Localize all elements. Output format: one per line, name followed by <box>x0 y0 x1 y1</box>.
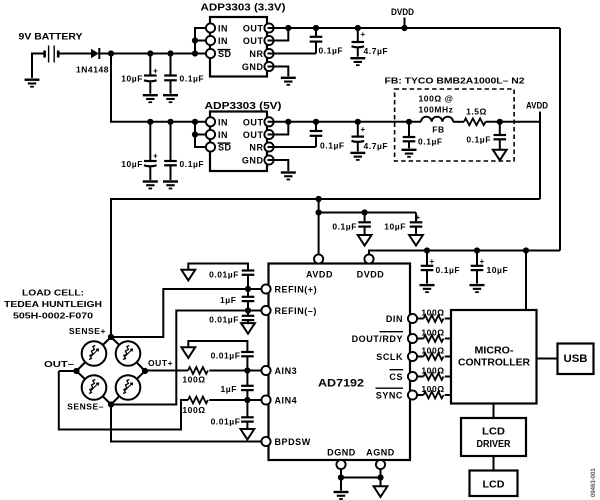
ground C17 AGND triangle <box>241 323 255 334</box>
svg-text:LOAD CELL:: LOAD CELL: <box>22 288 84 298</box>
capacitor C17 0.01uF REFIN- <box>209 311 254 325</box>
node filter output cap <box>497 119 503 125</box>
wire OUT- stub <box>59 370 77 372</box>
node filter input cap <box>406 119 412 125</box>
pin DOUT/RDY U3 <box>352 332 418 344</box>
pin CS U3 <box>389 370 417 382</box>
svg-text:AVDD: AVDD <box>526 101 548 111</box>
node AIN3 cap tap <box>244 367 250 373</box>
node U2 OUT2 <box>285 119 291 125</box>
wire battery node down to 5V rail <box>111 54 207 122</box>
wire U1 GND <box>268 67 289 77</box>
capacitor C10 0.1uF filter out <box>466 122 506 150</box>
pin SYNC U3 <box>376 388 418 400</box>
svg-text:SCLK: SCLK <box>376 352 403 362</box>
wire AVDD pin riser <box>318 199 320 255</box>
capacitor C1 10uF <box>121 54 158 94</box>
svg-text:ADP3303 (3.3V): ADP3303 (3.3V) <box>201 3 286 14</box>
svg-text:9V BATTERY: 9V BATTERY <box>19 32 84 43</box>
node C2 tap <box>167 50 173 56</box>
resistor R4 100ohm DOUT <box>417 328 451 342</box>
net AVDD <box>526 101 548 200</box>
wire AVDD return rail <box>111 199 540 337</box>
svg-text:OUT: OUT <box>243 130 264 140</box>
wire U1 OUT rail 3.3V <box>268 27 561 29</box>
svg-text:SD: SD <box>218 143 232 153</box>
pin DGND U3 <box>327 448 356 470</box>
dashed filter box <box>395 89 514 161</box>
svg-text:REFIN(+): REFIN(+) <box>275 285 318 295</box>
ground C1 <box>143 94 158 103</box>
svg-text:OUT+: OUT+ <box>148 358 173 368</box>
capacitor C5 10uF <box>121 122 158 180</box>
wire LCD driver to LCD <box>493 456 495 471</box>
svg-text:0.1µF: 0.1µF <box>466 135 491 145</box>
wire REFIN- <box>111 311 261 405</box>
svg-text:100Ω: 100Ω <box>182 375 205 385</box>
resistor R1 100ohm AIN3 <box>182 367 208 384</box>
ground battery <box>25 79 40 88</box>
capacitor C2 0.1uF <box>164 54 204 94</box>
label load cell <box>4 288 102 321</box>
node OUT- <box>73 368 79 374</box>
wire battery to diode <box>58 53 91 55</box>
svg-text:0.1µF: 0.1µF <box>436 265 461 275</box>
regulator U2 ADP3303 5V <box>205 101 282 171</box>
svg-text:+: + <box>430 257 435 266</box>
node OUT2 <box>285 25 291 31</box>
wire riser U2 to IN2 <box>195 134 207 136</box>
ferrite bead FB1 100ohm 100MHz <box>419 94 454 135</box>
ground C15 AGND triangle <box>181 270 195 281</box>
svg-text:SD: SD <box>218 49 232 59</box>
svg-text:+: + <box>361 125 366 134</box>
ground C14 <box>470 284 485 293</box>
svg-text:100Ω: 100Ω <box>421 384 444 394</box>
capacitor C20 0.01uF AIN4 <box>211 400 254 429</box>
node AVDD decouple rail <box>316 209 322 215</box>
pin AIN4 U3 <box>261 395 297 405</box>
wire U1 OUT2 riser <box>268 28 289 41</box>
svg-text:100MHz: 100MHz <box>419 105 454 115</box>
svg-text:AIN3: AIN3 <box>275 366 298 376</box>
capacitor C9 0.1uF filter in <box>403 122 443 149</box>
microcontroller U4 <box>451 310 537 404</box>
battery BT1 <box>45 46 59 63</box>
svg-text:DGND: DGND <box>327 448 356 458</box>
svg-text:IN: IN <box>218 36 228 46</box>
svg-text:0.1µF: 0.1µF <box>180 74 205 84</box>
node REFIN+ cap tap <box>245 286 251 292</box>
svg-text:DVDD: DVDD <box>357 270 385 280</box>
resistor R7 100ohm CS <box>417 366 451 380</box>
wire diode to regulator input <box>99 53 206 55</box>
svg-text:FB: TYCO BMB2A1000L– N2: FB: TYCO BMB2A1000L– N2 <box>385 76 525 86</box>
svg-text:09463-001: 09463-001 <box>591 468 597 497</box>
svg-text:4.7µF: 4.7µF <box>364 141 389 151</box>
svg-text:AD7192: AD7192 <box>318 378 364 390</box>
svg-text:0.1µF: 0.1µF <box>418 137 443 147</box>
svg-text:+: + <box>361 30 366 39</box>
svg-text:USB: USB <box>564 353 588 365</box>
capacitor C4 4.7uF <box>352 25 389 57</box>
svg-text:100Ω: 100Ω <box>421 308 444 318</box>
svg-text:GND: GND <box>242 62 264 72</box>
wire battery to ground <box>32 54 45 79</box>
svg-text:0.01µF: 0.01µF <box>209 270 239 280</box>
resistor R5 100ohm SCLK <box>417 346 451 360</box>
LCD display <box>470 471 518 497</box>
svg-text:10µF: 10µF <box>121 74 143 84</box>
ground C9 <box>402 149 417 158</box>
wire riser to IN2 U1 <box>195 40 207 42</box>
pin REFIN- U3 <box>261 306 317 316</box>
wire R2 to AIN4 pin <box>209 399 261 401</box>
svg-text:AIN4: AIN4 <box>275 396 298 406</box>
svg-text:OUT: OUT <box>243 36 264 46</box>
svg-text:100Ω: 100Ω <box>421 366 444 376</box>
svg-text:LCD: LCD <box>483 480 505 491</box>
wire FB to R6 <box>453 121 464 123</box>
svg-text:505H-0002-F070: 505H-0002-F070 <box>13 311 93 321</box>
node C14 tap <box>474 247 480 253</box>
svg-text:OUT: OUT <box>243 117 264 127</box>
wire MCU to LCD driver <box>493 404 495 419</box>
ground C4 <box>350 57 365 66</box>
svg-text:DOUT/RDY: DOUT/RDY <box>352 334 403 344</box>
svg-text:+: + <box>153 152 158 161</box>
pin AGND U3 <box>366 448 395 470</box>
capacitor C16 1uF REFIN <box>220 289 254 311</box>
wire U2 GND <box>268 160 289 171</box>
svg-text:1N4148: 1N4148 <box>76 65 109 75</box>
wire REFIN+ <box>111 289 261 337</box>
ground C2 <box>163 94 178 103</box>
wire riser U2 to SD <box>195 122 207 147</box>
ground C12 AGND triangle <box>409 235 423 246</box>
wire DGND <box>340 469 342 491</box>
svg-text:0.01µF: 0.01µF <box>211 351 241 361</box>
svg-text:CONTROLLER: CONTROLLER <box>458 357 530 369</box>
svg-text:TEDEA HUNTLEIGH: TEDEA HUNTLEIGH <box>4 299 102 309</box>
svg-text:SENSE+: SENSE+ <box>69 326 106 336</box>
svg-text:MICRO-: MICRO- <box>475 345 515 357</box>
svg-text:1µF: 1µF <box>220 295 236 305</box>
node riser tap U2 <box>192 119 198 125</box>
svg-text:BPDSW: BPDSW <box>275 437 311 447</box>
ground U2 <box>281 171 296 180</box>
wire U2 OUT2 riser <box>268 122 289 135</box>
pin DVDD U3 <box>357 254 385 279</box>
op-amp U3 AD7192 box <box>269 264 411 461</box>
svg-text:FB: FB <box>432 125 444 135</box>
wire U1 NR <box>268 53 317 55</box>
node AIN4 cap tap <box>244 397 250 403</box>
node REFIN- cap tap <box>245 307 251 313</box>
pin DIN U3 <box>386 314 417 324</box>
ground C18 AGND triangle <box>181 347 195 358</box>
wire MCU supply <box>525 251 527 311</box>
svg-text:IN: IN <box>218 130 228 140</box>
ground C8 <box>350 152 365 161</box>
pin SCLK U3 <box>376 352 417 362</box>
wire riser to IN pins U1 <box>195 28 207 54</box>
capacitor C11 0.1uF AVDD <box>332 213 371 235</box>
ground C13 <box>420 284 435 293</box>
node battery rail <box>108 50 114 56</box>
wire DGND to AGND link <box>341 477 381 479</box>
svg-text:CS: CS <box>389 372 403 382</box>
pin REFIN+ U3 <box>261 284 317 294</box>
node SENSE- <box>108 401 114 407</box>
svg-text:SYNC: SYNC <box>376 391 403 401</box>
wire AGND <box>380 469 382 486</box>
wire R1 to AIN3 pin <box>209 370 261 372</box>
wire AVDD decouple rail <box>319 212 416 214</box>
node C6 tap <box>167 119 173 125</box>
wire U2 NR <box>268 146 317 148</box>
svg-text:0.01µF: 0.01µF <box>209 315 239 325</box>
wire DVDD decouple rail <box>369 251 560 256</box>
svg-text:100Ω @: 100Ω @ <box>419 94 454 104</box>
svg-text:0.1µF: 0.1µF <box>332 222 357 232</box>
ground C11 AGND triangle <box>358 235 372 246</box>
capacitor C19 1uF AIN <box>221 371 254 401</box>
node riser IN2 <box>192 37 198 43</box>
ground C6 <box>163 180 178 189</box>
resistor R6 1.5ohm <box>464 107 487 126</box>
node OUT+ <box>142 368 148 374</box>
capacitor C15 0.01uF REFIN+ <box>188 264 254 290</box>
regulator U1 ADP3303 3.3V <box>201 3 286 77</box>
svg-text:REFIN(–): REFIN(–) <box>275 306 317 316</box>
svg-text:1.5Ω: 1.5Ω <box>466 107 487 117</box>
resistor R2 100ohm AIN4 <box>182 397 208 415</box>
load cell bridge wires <box>76 337 145 405</box>
svg-text:10µF: 10µF <box>121 159 143 169</box>
svg-text:GND: GND <box>242 156 264 166</box>
node C11 tap <box>362 209 368 215</box>
svg-text:OUT–: OUT– <box>44 359 74 369</box>
wire SENSE- to BPDSW <box>111 405 261 442</box>
svg-text:+: + <box>153 67 158 76</box>
capacitor C13 0.1uF DVDD <box>421 251 460 284</box>
wire 3.3V rail right corner down <box>559 28 561 251</box>
svg-text:OUT: OUT <box>243 24 264 34</box>
pin AIN3 U3 <box>261 366 297 376</box>
svg-text:IN: IN <box>218 117 228 127</box>
svg-text:DVDD: DVDD <box>391 7 414 17</box>
strain gauge symbols <box>89 346 133 394</box>
svg-text:NR: NR <box>249 143 263 153</box>
svg-text:100Ω: 100Ω <box>421 346 444 356</box>
svg-text:ADP3303 (5V): ADP3303 (5V) <box>205 101 282 112</box>
capacitor C6 0.1uF <box>164 122 204 180</box>
pin AVDD U3 <box>306 254 333 279</box>
svg-text:AVDD: AVDD <box>306 270 333 280</box>
node DGND <box>338 474 344 480</box>
node AVDD decouple tap <box>316 196 322 202</box>
svg-text:SENSE–: SENSE– <box>67 402 104 412</box>
resistor R3 100ohm DIN <box>417 308 451 322</box>
ground C5 <box>143 180 158 189</box>
wire AIN3 from OUT+ <box>145 370 188 372</box>
node SENSE+ <box>108 334 114 340</box>
wire AIN4 left leg from OUT- <box>59 371 188 430</box>
ground DGND <box>334 491 349 500</box>
diode D1 1N4148 <box>76 48 109 75</box>
capacitor C8 4.7uF <box>352 119 389 152</box>
ground C10 AGND triangle <box>493 150 507 161</box>
svg-text:DIN: DIN <box>386 314 403 324</box>
capacitor C12 10uF AVDD <box>384 213 422 235</box>
pin BPDSW U3 <box>261 437 310 447</box>
wire MCU to USB <box>537 358 558 360</box>
svg-text:AGND: AGND <box>366 448 395 458</box>
node MCU supply tap <box>523 247 529 253</box>
svg-text:100Ω: 100Ω <box>421 328 444 338</box>
capacitor C3 0.1uF NR <box>310 25 343 56</box>
svg-text:NR: NR <box>249 49 263 59</box>
node C1 tap <box>147 50 153 56</box>
capacitor C14 10uF DVDD <box>471 251 509 284</box>
node riser U2 IN2 <box>192 131 198 137</box>
node AGND <box>377 474 383 480</box>
svg-text:4.7µF: 4.7µF <box>364 46 389 56</box>
node riser tap <box>192 50 198 56</box>
node C13 tap <box>424 247 430 253</box>
ground U1 <box>281 77 296 86</box>
load cell gauge circles <box>82 341 141 400</box>
net DVDD <box>391 7 414 28</box>
svg-text:DRIVER: DRIVER <box>477 439 512 450</box>
capacitor C7 0.1uF NR <box>310 119 345 151</box>
resistor R8 100ohm SYNC <box>417 384 451 398</box>
svg-text:0.1µF: 0.1µF <box>319 46 344 56</box>
ground C20 AGND triangle <box>241 429 255 440</box>
wire R6 to AVDD corner <box>486 121 541 123</box>
svg-text:0.1µF: 0.1µF <box>180 159 205 169</box>
wire U2 OUT rail 5V <box>268 121 422 123</box>
svg-text:0.1µF: 0.1µF <box>320 141 345 151</box>
svg-text:10µF: 10µF <box>384 222 406 232</box>
svg-text:IN: IN <box>218 24 228 34</box>
capacitor C18 0.01uF AIN3 <box>188 341 253 371</box>
svg-text:10µF: 10µF <box>487 265 509 275</box>
svg-text:+: + <box>480 257 485 266</box>
svg-text:1µF: 1µF <box>221 384 237 394</box>
ground AGND triangle <box>374 486 388 497</box>
node C5 tap <box>147 119 153 125</box>
svg-text:+: + <box>416 213 421 222</box>
USB connector <box>558 344 594 375</box>
node DVDD tap <box>401 25 407 31</box>
svg-text:0.01µF: 0.01µF <box>211 417 241 427</box>
svg-text:100Ω: 100Ω <box>182 405 205 415</box>
LCD driver U5 <box>461 418 526 456</box>
svg-text:LCD: LCD <box>482 427 505 438</box>
